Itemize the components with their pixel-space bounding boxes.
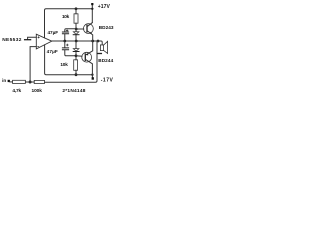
ground bar: [25, 39, 31, 41]
label plus C2: [66, 44, 68, 46]
node R2 to rail: [75, 73, 78, 76]
speaker LS1 horn: [104, 41, 108, 53]
svg-text:47µF: 47µF: [47, 49, 58, 54]
wire -17V stem: [91, 75, 93, 78]
node diode mid junction: [75, 40, 78, 43]
wire cap1 bottom lead: [64, 34, 66, 41]
diode D2 1N4148: [73, 49, 79, 52]
wire speaker top lead: [98, 41, 102, 45]
wire R2 leads: [75, 56, 77, 75]
wire node X: [25, 81, 34, 83]
svg-text:+17V: +17V: [98, 4, 111, 10]
transistor Q1 base bar: [86, 25, 88, 31]
wire top rail: [45, 9, 93, 38]
wire in lead: [10, 81, 13, 83]
svg-text:NE5532: NE5532: [2, 37, 22, 43]
svg-text:BD243: BD243: [99, 25, 114, 30]
transistor Q2 BD244 circle: [82, 52, 92, 62]
transistor Q2 emitter arrow: [86, 54, 88, 56]
capacitor C1 47uF plates: [62, 32, 68, 34]
wire noninv input stub to ground: [28, 37, 37, 39]
svg-text:10k: 10k: [62, 14, 70, 19]
label plus C1: [66, 29, 68, 31]
svg-text:-17V: -17V: [101, 78, 114, 84]
diode D1 leads: [75, 29, 77, 41]
terminal in: [8, 80, 10, 82]
svg-text:10k: 10k: [60, 62, 68, 67]
wire op-amp output line: [52, 40, 98, 42]
capacitor C2 47uF plates: [62, 48, 68, 50]
resistor R4 100k: [34, 80, 44, 83]
wire cap1 top lead: [65, 29, 76, 32]
wire cap2 top lead: [64, 41, 66, 48]
op-amp U1 triangle: [36, 34, 52, 49]
wire R1 leads: [75, 9, 77, 29]
speaker LS1 box: [100, 45, 103, 51]
transistor Q2 base bar: [84, 54, 86, 60]
diode D1 1N4148: [73, 32, 79, 35]
node cap junction on output: [63, 40, 66, 43]
svg-text:2*1N4148: 2*1N4148: [62, 88, 85, 94]
transistor Q2 collector: [86, 59, 93, 74]
transistor Q2 emitter: [86, 41, 93, 55]
node junction +17V: [91, 8, 93, 10]
label opamp minus: [37, 45, 39, 47]
wire base BD243: [76, 28, 84, 30]
label opamp plus: [38, 36, 40, 38]
node -17V junction: [91, 74, 93, 76]
resistor R3 4,7k: [13, 80, 26, 83]
diode D2 leads: [75, 41, 77, 56]
wire bottom rail: [45, 45, 93, 75]
wire inverting input down: [30, 47, 36, 83]
node X input/feedback: [29, 81, 32, 84]
svg-text:in: in: [2, 78, 6, 83]
node base1: [75, 28, 78, 31]
terminal -17V: [92, 77, 94, 80]
svg-text:100k: 100k: [32, 88, 43, 94]
resistor R1 10k: [74, 14, 78, 23]
wire cap2 bottom lead: [65, 50, 76, 56]
node base2: [75, 54, 78, 57]
transistor Q1 emitter: [87, 31, 93, 41]
svg-text:4,7k: 4,7k: [12, 88, 21, 94]
node speaker tap: [97, 40, 100, 43]
speaker bottom bar: [97, 53, 101, 55]
transistor Q1 collector: [87, 23, 92, 27]
wire base BD244: [76, 55, 82, 57]
svg-text:47µF: 47µF: [48, 30, 59, 35]
node emitters junction: [91, 40, 94, 43]
transistor Q1 emitter arrow: [90, 32, 92, 34]
wire feedback line: [45, 41, 98, 82]
wire +17V stem: [91, 5, 93, 23]
resistor R2 10k: [74, 60, 78, 71]
terminal +17V: [91, 3, 93, 5]
node junction top rail to R1: [75, 7, 78, 10]
svg-text:BD244: BD244: [98, 58, 113, 63]
transistor Q1 BD243 circle: [84, 24, 94, 34]
